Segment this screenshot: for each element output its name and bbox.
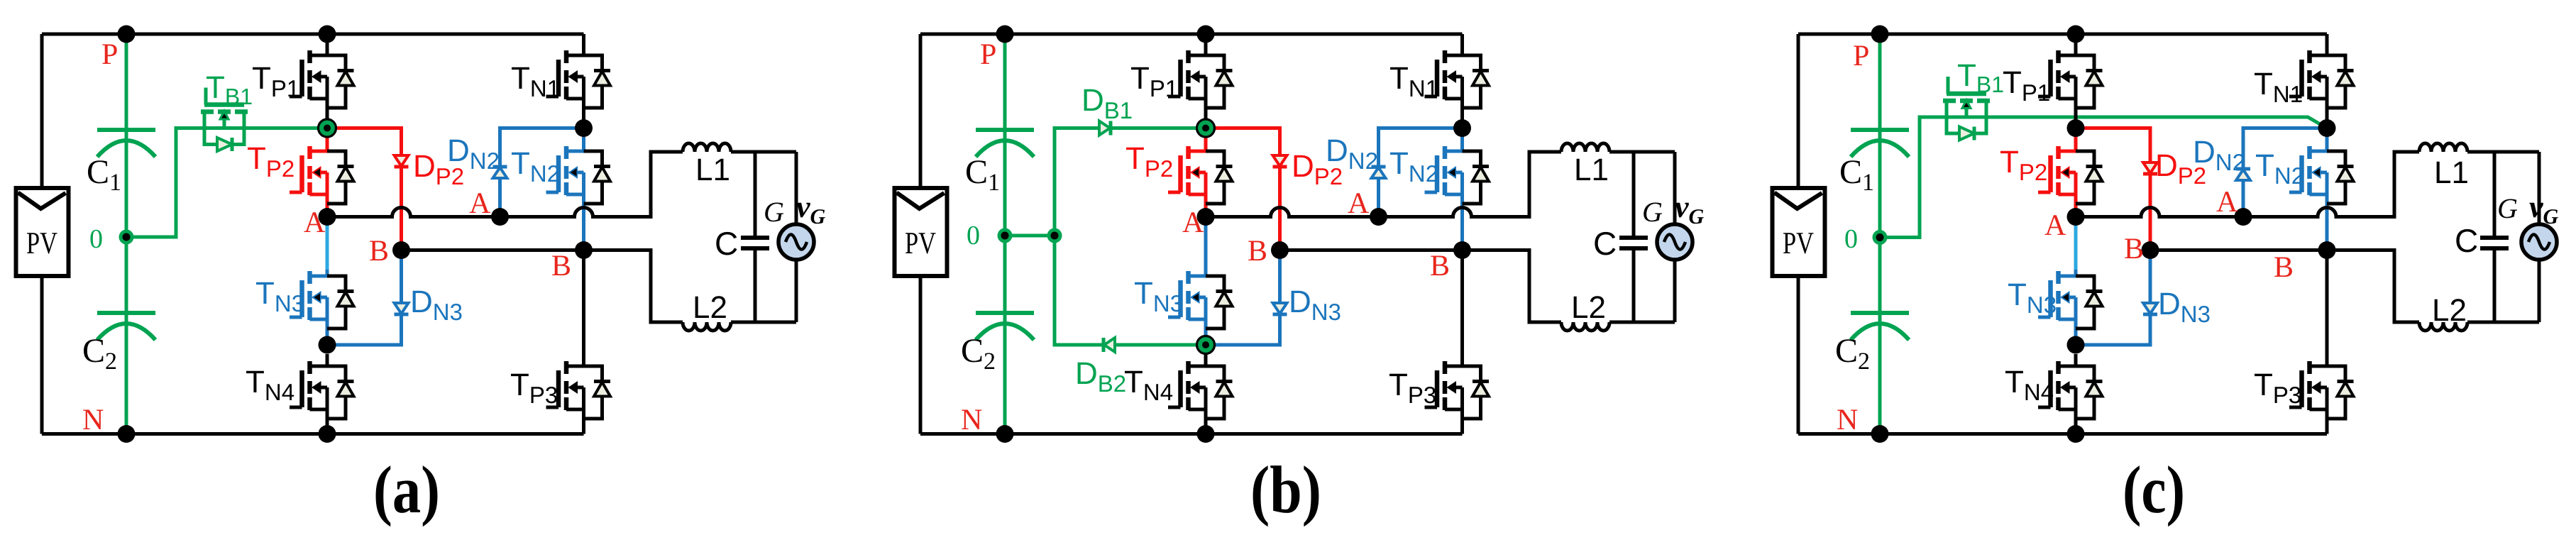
- PV source PV (c): [1773, 188, 1825, 276]
- wire DN2 branch (a): [500, 128, 584, 217]
- diode DN3 (b): [1273, 303, 1287, 314]
- wire node A to TN3 (b): [1204, 217, 1208, 277]
- node TP1-TP2 junction (c): [2067, 119, 2085, 137]
- wire TP1 drain (a): [326, 34, 329, 55]
- wire TN1 drain (a): [582, 34, 585, 55]
- wire TN4 source (b): [1204, 387, 1208, 434]
- wire TN2 source (c): [2325, 172, 2329, 250]
- node TN3-TN4 junction (c): [2067, 336, 2085, 354]
- diode DN3 (c): [2143, 303, 2157, 314]
- wire DC-link midpoint line (a): [125, 34, 128, 434]
- capacitor C1 (a): [97, 130, 155, 157]
- svg-text:P: P: [1853, 40, 1869, 72]
- inductor L2 (b): [1561, 322, 1609, 331]
- diode DP2 (a): [395, 155, 409, 167]
- wire TP1 source (b): [1204, 77, 1208, 128]
- wire TN1 drain (b): [1460, 34, 1464, 55]
- wire bottom rail N (c): [1798, 432, 2327, 436]
- wire TN4 drain (a): [326, 354, 329, 366]
- svg-text:(c): (c): [2123, 452, 2185, 527]
- wire grid branch (c): [2538, 152, 2541, 322]
- wire L1 to grid (b): [1609, 150, 1675, 154]
- node B grid-side (a): [575, 241, 593, 259]
- node 0 (b): [998, 228, 1013, 243]
- node A (c): [2067, 208, 2085, 226]
- svg-text:A: A: [1348, 187, 1370, 220]
- node TP1-TP2 junction (b): [1197, 119, 1215, 137]
- filter capacitor C (a): [741, 152, 769, 322]
- node B (b): [1271, 241, 1289, 259]
- node TN4 source junction (a): [319, 425, 336, 443]
- transistor TP2 (c): [2038, 146, 2103, 204]
- svg-text:0: 0: [967, 221, 980, 250]
- svg-text:PV: PV: [26, 226, 57, 260]
- transistor TN3 (c): [2038, 271, 2103, 329]
- node N (c): [1871, 425, 1889, 443]
- svg-text:B: B: [2124, 233, 2144, 265]
- transistor TN2 (a): [546, 146, 611, 204]
- wire TN2 drain (c): [2325, 136, 2329, 151]
- svg-text:A: A: [304, 206, 326, 239]
- transistor TB1 (c): [1943, 77, 1990, 140]
- wire DN3 branch (b): [1206, 250, 1280, 346]
- wire TN3 source (b): [1204, 297, 1208, 345]
- diode DB1 (b): [1099, 121, 1111, 136]
- wire node A to TN3 cyan (c): [2074, 217, 2078, 270]
- wire L2 to grid (a): [731, 321, 796, 324]
- svg-text:L2: L2: [1571, 290, 1606, 325]
- inductor L2 (a): [683, 322, 731, 331]
- wire TP1 source (a): [326, 77, 329, 128]
- wire top rail P (c): [1798, 33, 2327, 36]
- wire TN4 drain (b): [1204, 354, 1208, 366]
- svg-text:N: N: [1837, 404, 1858, 436]
- wire node 0 to TB1 branch (a): [126, 128, 327, 238]
- wire output line B (b): [1280, 250, 1562, 323]
- node TN1-TN2 junction (c): [2318, 119, 2336, 137]
- wire TN3 source (c): [2074, 297, 2078, 345]
- wire top rail P (a): [42, 33, 584, 36]
- transistor TB1 (a): [201, 88, 248, 152]
- transistor TN1 (c): [2289, 50, 2354, 108]
- svg-text:B: B: [1430, 250, 1450, 282]
- wire grid branch (a): [795, 152, 798, 322]
- PV source PV (a): [16, 188, 69, 276]
- wire bottom rail N (a): [42, 432, 584, 436]
- wire L1 to grid (a): [731, 150, 796, 154]
- svg-text:PV: PV: [905, 226, 936, 260]
- filter capacitor C (c): [2480, 152, 2509, 322]
- svg-text:PV: PV: [1783, 226, 1814, 260]
- node TN4 source junction (b): [1197, 425, 1215, 443]
- svg-text:L1: L1: [695, 153, 730, 187]
- node TN1-TN2 junction (a): [575, 119, 593, 137]
- node TN3-TN4 junction (b): [1197, 336, 1215, 354]
- wire node to DP2 branch red (b): [1206, 128, 1280, 250]
- svg-text:G: G: [764, 196, 784, 228]
- svg-text:P: P: [980, 38, 996, 71]
- svg-text:(b): (b): [1250, 452, 1321, 527]
- capacitor C1 (b): [976, 130, 1034, 157]
- node P (b): [996, 26, 1014, 43]
- node TP1 drain junction (a): [319, 26, 336, 43]
- wire TN4 source (c): [2074, 387, 2078, 434]
- node P (c): [1871, 26, 1889, 43]
- wire TN4 source (a): [326, 387, 329, 434]
- svg-text:C: C: [715, 225, 738, 262]
- svg-text:C: C: [1593, 225, 1617, 262]
- inductor L1 (a): [683, 143, 731, 152]
- transistor TN2 (b): [1425, 146, 1490, 204]
- node TP1-TP2 junction (a): [319, 119, 336, 137]
- svg-text:C: C: [2455, 222, 2478, 259]
- svg-text:G: G: [2497, 192, 2518, 224]
- node B (a): [392, 241, 410, 259]
- diode DN3 (a): [395, 303, 409, 314]
- wire node to DP2 branch red (c): [2076, 128, 2150, 250]
- node N (b): [996, 425, 1014, 443]
- svg-text:A: A: [1182, 206, 1204, 239]
- node N (a): [118, 425, 136, 443]
- wire TP1 drain (c): [2074, 34, 2078, 55]
- svg-text:0: 0: [1844, 224, 1858, 254]
- wire DN3 branch (c): [2076, 250, 2150, 346]
- wire TP1 source (c): [2074, 77, 2078, 128]
- capacitor C2 (b): [976, 313, 1034, 340]
- transistor TN4 (c): [2038, 361, 2103, 419]
- wire TP3 source (a): [582, 387, 585, 434]
- node 0 (a): [119, 230, 134, 245]
- wire TP3 drain (a): [582, 250, 585, 367]
- transistor TN1 (a): [546, 50, 611, 108]
- diode DP2 (b): [1273, 155, 1287, 167]
- transistor TN4 (a): [290, 361, 354, 419]
- wire TN1 source (b): [1460, 77, 1464, 128]
- node B grid-side (c): [2318, 241, 2336, 259]
- svg-text:A: A: [2216, 186, 2238, 219]
- wire left rail (c): [1797, 34, 1800, 434]
- transistor TP1 (a): [290, 50, 354, 108]
- wire node 0 to TB1 branch (c): [1880, 117, 2327, 238]
- wire top rail P (b): [920, 33, 1463, 36]
- node P (a): [118, 26, 136, 43]
- wire node A to TN3 cyan (a): [326, 217, 329, 270]
- node B (c): [2142, 241, 2159, 259]
- wire TP3 drain (c): [2325, 250, 2329, 367]
- node A (b): [1197, 208, 1215, 226]
- node TN1-TN2 junction (b): [1453, 119, 1471, 137]
- PV source PV (b): [895, 188, 947, 276]
- wire TN3 drain blue (c): [2074, 270, 2078, 276]
- svg-text:B: B: [2274, 251, 2294, 284]
- wire output line B (a): [402, 250, 683, 323]
- wire left rail (a): [40, 34, 44, 434]
- wire output line A with crossovers (b): [1206, 152, 1561, 217]
- wire DB2 branch (b): [1055, 236, 1206, 345]
- wire TN2 source (a): [582, 172, 585, 250]
- svg-text:B: B: [1248, 235, 1267, 267]
- wire output line A with crossovers (a): [327, 152, 683, 217]
- wire L1 to grid (c): [2467, 150, 2539, 154]
- wire TN1 drain (c): [2325, 34, 2329, 55]
- svg-text:N: N: [961, 404, 982, 436]
- wire TP1 drain (b): [1204, 34, 1208, 55]
- node TN4 source junction (c): [2067, 425, 2085, 443]
- inductor L1 (c): [2419, 143, 2467, 152]
- svg-text:0: 0: [89, 224, 103, 254]
- capacitor C2 (a): [97, 313, 155, 340]
- svg-text:A: A: [469, 187, 491, 220]
- node A grid-side (b): [1370, 208, 1387, 226]
- svg-text:L1: L1: [2434, 155, 2469, 190]
- transistor TP2 (b): [1168, 146, 1233, 204]
- wire output line A with crossovers (c): [2076, 152, 2419, 217]
- svg-text:N: N: [82, 404, 104, 436]
- wire TN2 drain (a): [582, 136, 585, 151]
- wire output line B (c): [2150, 250, 2419, 323]
- node TP1 drain junction (c): [2067, 26, 2085, 43]
- wire TN3 source (a): [326, 297, 329, 345]
- diode DB2 (b): [1103, 338, 1115, 352]
- transistor TP3 (c): [2289, 361, 2354, 419]
- node A (a): [319, 208, 336, 226]
- transistor TN4 (b): [1168, 361, 1233, 419]
- wire TN1 source (c): [2325, 77, 2329, 128]
- wire TP3 source (b): [1460, 387, 1464, 434]
- svg-text:A: A: [2044, 209, 2066, 242]
- transistor TN3 (b): [1168, 271, 1233, 329]
- wire TN4 drain (c): [2074, 354, 2078, 366]
- wire node 0 link (b): [1005, 234, 1055, 238]
- diode DP2 (c): [2143, 162, 2157, 174]
- svg-text:(a): (a): [373, 452, 440, 527]
- wire bottom rail N (b): [920, 432, 1463, 436]
- node 0 branch junction (b): [1047, 228, 1062, 243]
- diode DN2 (b): [1372, 167, 1386, 178]
- node B grid-side (b): [1453, 241, 1471, 259]
- transistor TN2 (c): [2289, 146, 2354, 204]
- node TP1 drain junction (b): [1197, 26, 1215, 43]
- wire TN3 drain blue (a): [326, 270, 329, 276]
- transistor TN1 (b): [1425, 50, 1490, 108]
- wire left rail (b): [919, 34, 923, 434]
- wire node to DP2 branch red (a): [327, 128, 402, 250]
- svg-text:L2: L2: [693, 290, 727, 325]
- grid source vG (b): [1657, 224, 1692, 260]
- inductor L2 (c): [2419, 322, 2467, 331]
- wire TN1 source (a): [582, 77, 585, 128]
- filter capacitor C (b): [1619, 152, 1648, 322]
- transistor TP1 (b): [1168, 50, 1233, 108]
- transistor TP2 (a): [290, 146, 354, 204]
- grid source vG (c): [2521, 224, 2557, 260]
- transistor TP3 (a): [546, 361, 611, 419]
- wire TP3 source (c): [2325, 387, 2329, 434]
- svg-text:L2: L2: [2432, 293, 2467, 328]
- wire L2 to grid (c): [2467, 321, 2539, 324]
- node A grid-side (a): [491, 208, 509, 226]
- wire DN2 branch (b): [1379, 128, 1463, 217]
- wire grid branch (b): [1673, 152, 1677, 322]
- wire TP3 drain (b): [1460, 250, 1464, 367]
- node TN3-TN4 junction (a): [319, 336, 336, 354]
- capacitor C2 (c): [1851, 313, 1909, 340]
- wire L2 to grid (b): [1609, 321, 1675, 324]
- transistor TP1 (c): [2038, 50, 2103, 108]
- transistor TP3 (b): [1425, 361, 1490, 419]
- wire DC-link midpoint line (b): [1003, 34, 1007, 434]
- wire TN2 drain (b): [1460, 136, 1464, 151]
- wire TN2 source (b): [1460, 172, 1464, 250]
- svg-text:G: G: [1642, 196, 1663, 228]
- node A grid-side (c): [2235, 208, 2252, 226]
- inductor L1 (b): [1561, 143, 1609, 152]
- capacitor C1 (c): [1851, 130, 1909, 157]
- svg-text:P: P: [101, 38, 118, 71]
- wire DN3 branch (a): [327, 250, 402, 346]
- diode DN2 (c): [2236, 169, 2250, 180]
- diode DN2 (a): [493, 167, 507, 178]
- wire DN2 branch (c): [2243, 128, 2327, 217]
- svg-text:B: B: [369, 235, 389, 267]
- wire DB1 branch (b): [1055, 128, 1206, 236]
- node 0 (c): [1873, 230, 1888, 245]
- svg-text:L1: L1: [1574, 153, 1609, 187]
- grid source vG (a): [778, 224, 814, 260]
- transistor TN3 (a): [290, 271, 354, 329]
- wire DC-link midpoint line (c): [1878, 34, 1882, 434]
- svg-text:B: B: [551, 250, 571, 282]
